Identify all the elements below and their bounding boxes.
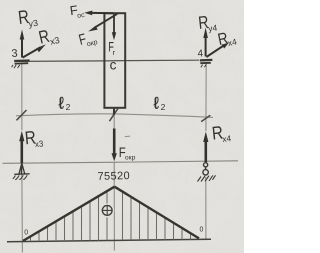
support under R_x3 (pin trestle) xyxy=(13,163,30,179)
svg-text:ℓ: ℓ xyxy=(154,94,159,112)
svg-text:3: 3 xyxy=(11,48,18,60)
label l2 right xyxy=(154,94,166,112)
label R_x4 top xyxy=(216,28,238,50)
svg-text:х4: х4 xyxy=(222,133,232,144)
support 3 (double bar) xyxy=(12,61,30,69)
moment diagram left hypotenuse xyxy=(23,187,115,241)
dimension tick at x=206 xyxy=(201,115,210,121)
label R_y4 xyxy=(197,11,218,34)
reaction R_x3 diagonal arrow xyxy=(23,44,46,57)
svg-text:окр: окр xyxy=(125,155,136,162)
svg-text:ℓ: ℓ xyxy=(59,95,64,113)
svg-text:2: 2 xyxy=(66,102,71,112)
reaction R_x4 diagonal arrow xyxy=(206,43,228,57)
svg-text:0: 0 xyxy=(24,229,28,236)
label R_x3 top xyxy=(37,24,61,49)
dimension tick at x=116 xyxy=(109,108,118,122)
reaction R_x3 middle arrow xyxy=(19,131,24,163)
paper background xyxy=(0,0,244,253)
wire: left vertical construction line x=22 xyxy=(21,64,24,253)
moment diagram right hypotenuse xyxy=(115,187,200,239)
label R_y3 xyxy=(17,6,39,30)
reaction R_x4 middle arrow xyxy=(203,132,208,163)
column bottom stub xyxy=(113,108,115,115)
plus sign in circle xyxy=(102,206,112,216)
dimension tick at x=21 xyxy=(17,110,27,120)
label R_x4 middle xyxy=(211,121,232,145)
svg-text:c: c xyxy=(110,57,117,72)
reaction R_y3 arrow xyxy=(20,30,25,58)
force F_oc arrow xyxy=(84,11,113,16)
svg-text:75520: 75520 xyxy=(97,170,130,183)
label F_oc xyxy=(69,1,86,20)
wire: top beam axis line 3-c-4 xyxy=(19,60,199,61)
wire: dimension line y=115 xyxy=(16,114,213,118)
clearing disc for plus sign xyxy=(100,203,114,217)
stray pencil dash xyxy=(125,135,130,138)
column C rectangle xyxy=(104,13,125,108)
moment diagram hatching xyxy=(31,192,191,242)
svg-text:2: 2 xyxy=(161,102,166,112)
wire: lower reference line y=162 xyxy=(3,161,239,164)
support under R_x4 (roller links) xyxy=(198,163,216,182)
wire: right vertical construction line x=206 xyxy=(205,63,207,240)
label l2 left xyxy=(59,95,71,113)
svg-text:ос: ос xyxy=(77,12,86,20)
reaction R_y4 arrow xyxy=(203,28,208,57)
svg-text:х3: х3 xyxy=(34,138,44,149)
force F_okr middle down arrow xyxy=(112,129,117,162)
wire: center vertical construction line x=114 xyxy=(113,108,115,251)
label F_okr middle xyxy=(119,145,136,161)
svg-text:0: 0 xyxy=(200,227,204,234)
force F_okr top diagonal arrow xyxy=(88,14,117,32)
force F_g arrow xyxy=(112,14,116,40)
support 4 (double bar) xyxy=(200,60,213,68)
svg-text:г: г xyxy=(113,48,116,57)
moment diagram baseline xyxy=(7,239,211,242)
label F_okr top xyxy=(77,28,98,50)
label R_x3 middle xyxy=(24,126,44,150)
